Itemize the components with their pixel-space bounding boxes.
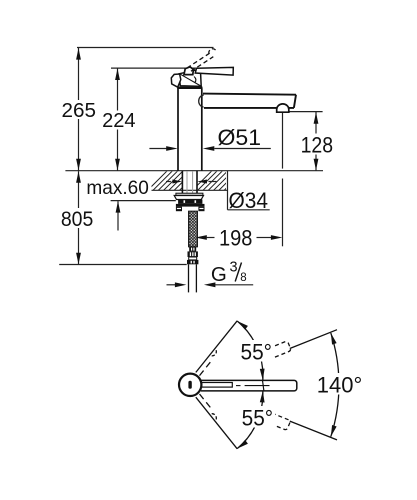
svg-text:128: 128	[301, 133, 334, 158]
svg-text:Ø34: Ø34	[229, 188, 269, 213]
svg-text:8: 8	[240, 272, 246, 284]
svg-text:G: G	[211, 263, 227, 286]
svg-text:198: 198	[219, 226, 253, 251]
svg-text:140°: 140°	[317, 373, 363, 398]
svg-text:224: 224	[102, 110, 136, 132]
svg-text:3: 3	[230, 260, 238, 276]
svg-text:55°: 55°	[242, 405, 274, 430]
svg-text:55°: 55°	[241, 339, 273, 364]
svg-text:Ø51: Ø51	[218, 125, 262, 150]
svg-text:max.60: max.60	[86, 177, 149, 199]
svg-text:805: 805	[61, 208, 93, 231]
svg-text:265: 265	[62, 100, 96, 122]
